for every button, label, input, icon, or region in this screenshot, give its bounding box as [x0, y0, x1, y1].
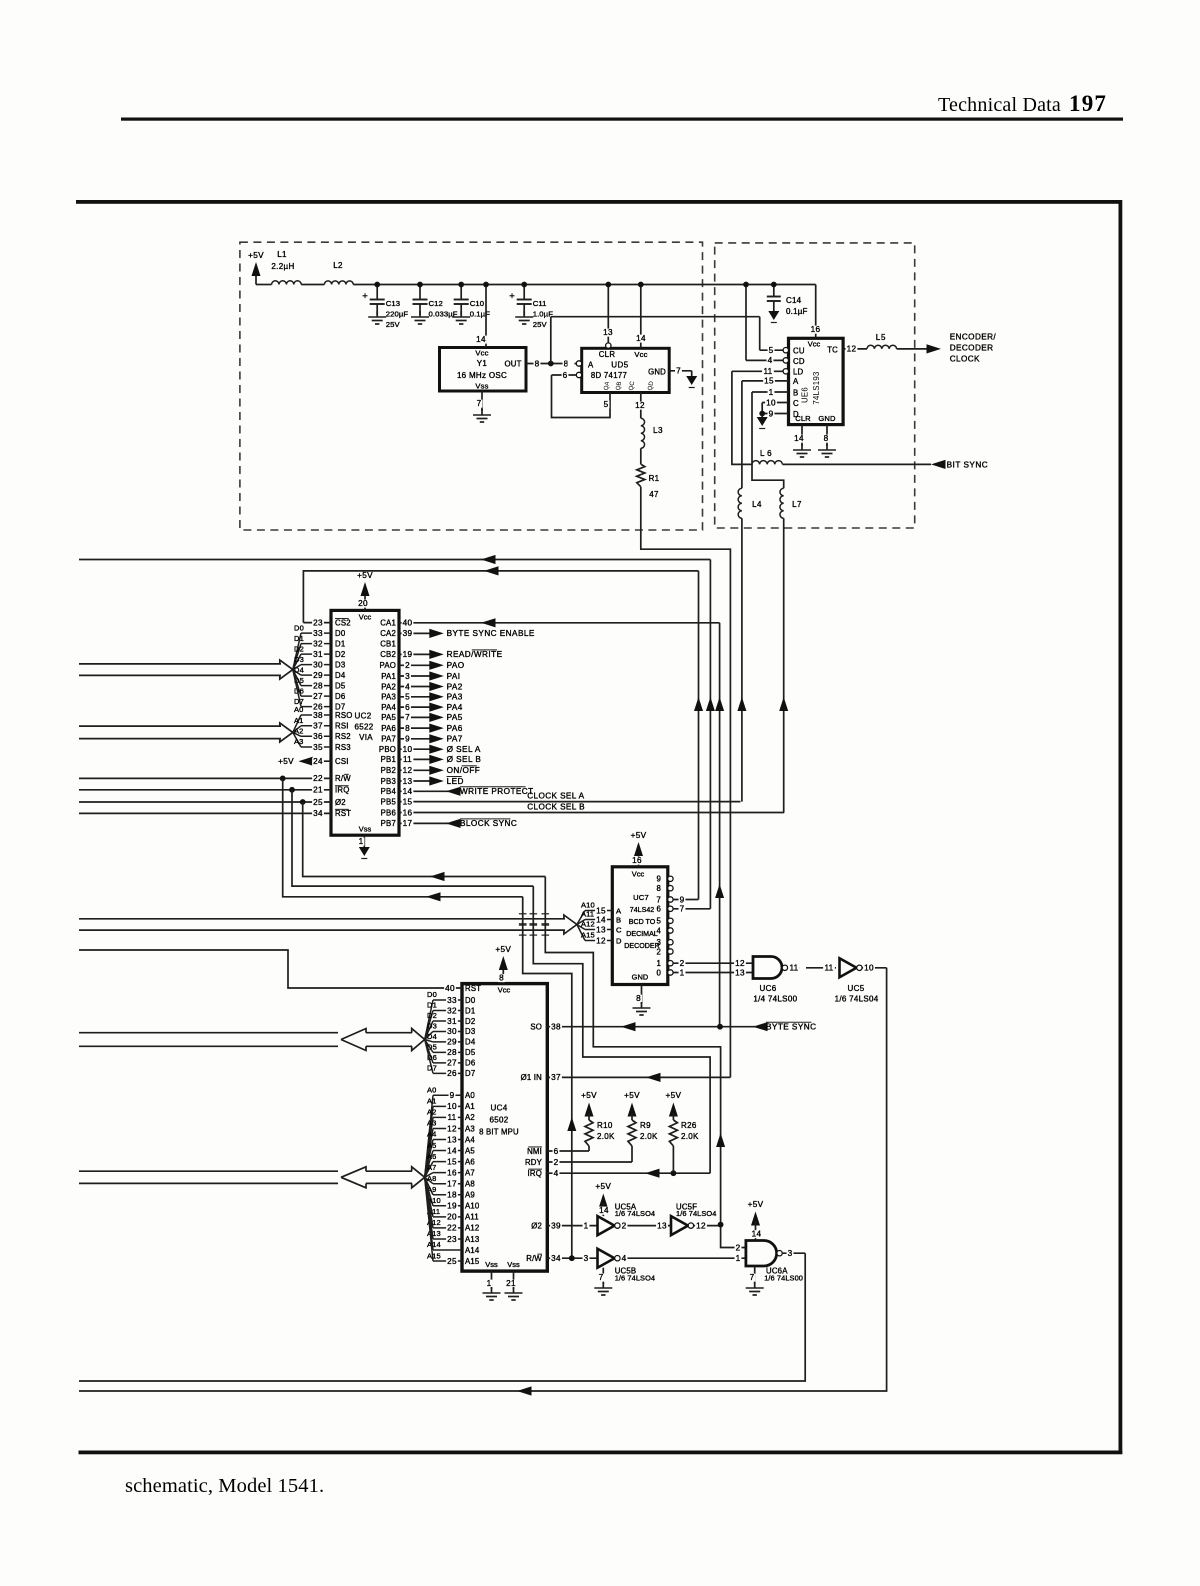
IC UC2 6522 VIA: [331, 610, 399, 835]
svg-text:DECODER: DECODER: [624, 942, 659, 950]
UE6 pin 14 CLR to ground: [801, 425, 803, 446]
dashed box oscillator section: [240, 242, 703, 530]
svg-text:Vcc: Vcc: [359, 613, 372, 622]
svg-text:L5: L5: [876, 333, 887, 342]
frame bottom edge: [79, 1451, 1123, 1455]
svg-text:1: 1: [487, 1279, 492, 1288]
svg-text:22: 22: [313, 774, 323, 783]
svg-text:0.1µF: 0.1µF: [470, 310, 491, 319]
svg-text:PA3: PA3: [381, 693, 396, 702]
svg-text:13: 13: [403, 777, 413, 786]
svg-text:Vss: Vss: [475, 382, 488, 391]
svg-text:+5V: +5V: [624, 1091, 640, 1100]
UC4 Vss pin 21 ground: [513, 1271, 515, 1289]
svg-text:PB1: PB1: [381, 755, 396, 764]
label BYTE SYNC with arrow: [753, 1022, 768, 1031]
wire fan A1: [293, 726, 301, 733]
svg-text:13: 13: [657, 1221, 667, 1230]
svg-text:L2: L2: [333, 261, 343, 270]
svg-text:D4: D4: [465, 1038, 476, 1047]
svg-text:16: 16: [403, 808, 413, 817]
wire fan A6: [425, 1162, 433, 1178]
bus data D0-D7 to UC2: [79, 663, 281, 665]
svg-text:DECODER: DECODER: [950, 344, 994, 353]
svg-text:D3: D3: [427, 1022, 437, 1031]
svg-text:7: 7: [405, 713, 410, 722]
svg-text:D3: D3: [465, 1027, 475, 1036]
svg-text:D7: D7: [465, 1069, 475, 1078]
wire UE6 A input through L4: [741, 381, 743, 488]
svg-text:A7: A7: [465, 1168, 475, 1177]
UE6 pin 8 GND to ground: [826, 425, 828, 446]
svg-text:C14: C14: [786, 296, 802, 305]
svg-text:5: 5: [769, 346, 774, 355]
wire fan A8: [425, 1177, 433, 1183]
svg-text:CD: CD: [793, 357, 805, 366]
svg-text:47: 47: [649, 490, 659, 499]
svg-text:8: 8: [405, 724, 410, 733]
svg-text:14: 14: [403, 787, 413, 796]
svg-text:1: 1: [359, 837, 364, 846]
svg-text:PB2: PB2: [381, 766, 396, 775]
bus address A0-A3 to UC2: [79, 725, 281, 727]
svg-text:A12: A12: [465, 1224, 479, 1233]
svg-text:A2: A2: [427, 1108, 436, 1117]
svg-text:B: B: [793, 388, 798, 397]
svg-text:PA7: PA7: [381, 735, 396, 744]
svg-text:R26: R26: [681, 1121, 697, 1130]
svg-text:PAO: PAO: [380, 661, 397, 670]
svg-text:CLR: CLR: [795, 414, 811, 423]
svg-text:PA4: PA4: [447, 703, 463, 712]
svg-text:D1: D1: [465, 1006, 475, 1015]
svg-text:C10: C10: [470, 299, 484, 308]
wire decoder out7 riser: [698, 571, 700, 900]
svg-text:4: 4: [554, 1169, 559, 1178]
svg-text:25: 25: [313, 798, 323, 807]
svg-text:12: 12: [696, 1221, 706, 1230]
svg-text:D2: D2: [294, 644, 304, 653]
svg-text:A3: A3: [465, 1124, 475, 1133]
svg-text:12: 12: [635, 401, 645, 410]
svg-text:+5V: +5V: [248, 251, 264, 260]
svg-text:4: 4: [656, 926, 661, 935]
wire fan D0: [293, 633, 301, 670]
inductor L5: [867, 345, 897, 349]
svg-text:+: +: [362, 291, 368, 302]
svg-text:CLR: CLR: [599, 350, 616, 359]
capacitor C12: [419, 285, 421, 300]
svg-text:RST: RST: [335, 809, 351, 818]
svg-text:13: 13: [596, 925, 606, 934]
svg-text:220µF: 220µF: [386, 310, 409, 319]
svg-text:21: 21: [313, 786, 323, 795]
svg-text:TC: TC: [827, 345, 838, 354]
wire fan D2: [293, 654, 301, 670]
svg-text:BCD TO: BCD TO: [629, 918, 656, 926]
svg-text:D4: D4: [294, 665, 304, 674]
bus address A0-A15 to UC4: [79, 1170, 338, 1172]
wire hop marks at bus crossing: [519, 913, 527, 915]
svg-text:R9: R9: [640, 1121, 651, 1130]
svg-text:D5: D5: [335, 681, 346, 690]
UC5B pin 7 ground: [602, 1268, 604, 1284]
svg-text:40: 40: [403, 619, 413, 628]
svg-text:DECIMAL: DECIMAL: [626, 930, 658, 938]
svg-text:A: A: [588, 361, 594, 370]
svg-text:16 MHz OSC: 16 MHz OSC: [457, 371, 507, 380]
svg-text:30: 30: [447, 1027, 457, 1036]
svg-text:15: 15: [447, 1157, 457, 1166]
svg-text:A15: A15: [427, 1251, 441, 1260]
svg-text:30: 30: [313, 660, 323, 669]
svg-text:1: 1: [680, 968, 685, 977]
wire fan A1: [425, 1106, 433, 1177]
UE6 pin 11 LD input from BIT SYNC: [732, 370, 783, 372]
svg-text:4: 4: [768, 356, 773, 365]
svg-text:PA6: PA6: [447, 724, 463, 733]
svg-text:2.0K: 2.0K: [640, 1132, 658, 1141]
svg-text:A2: A2: [465, 1113, 475, 1122]
svg-text:A0: A0: [427, 1086, 436, 1095]
svg-text:14: 14: [794, 434, 804, 443]
svg-text:D3: D3: [335, 660, 345, 669]
wire R1 to phase1 clock route: [641, 487, 731, 1078]
wire UC5B out to UC6A input 1: [620, 1257, 746, 1259]
svg-text:PA5: PA5: [381, 713, 396, 722]
svg-text:23: 23: [313, 618, 323, 627]
svg-text:PA7: PA7: [447, 735, 463, 744]
svg-text:3: 3: [405, 672, 410, 681]
svg-text:D4: D4: [335, 671, 346, 680]
svg-text:C11: C11: [533, 299, 547, 308]
svg-text:ENCODER/: ENCODER/: [950, 333, 997, 342]
svg-text:8: 8: [656, 884, 661, 893]
svg-text:+5V: +5V: [631, 831, 647, 840]
wire CS2 select from decoder out7: [303, 571, 698, 623]
svg-text:2: 2: [736, 1243, 741, 1252]
svg-text:A9: A9: [465, 1191, 475, 1200]
svg-text:D2: D2: [427, 1011, 437, 1020]
gate UC5B inverter: [598, 1249, 615, 1268]
wire R/W net route: [283, 778, 523, 896]
svg-text:2.0K: 2.0K: [597, 1132, 615, 1141]
svg-text:Technical Data: Technical Data: [938, 94, 1061, 116]
wire decoder out6 riser: [709, 560, 711, 909]
UC2 Vss pin 1 ground: [363, 835, 365, 847]
wire Y1 OUT pin 8: [526, 363, 577, 365]
svg-text:6: 6: [554, 1147, 559, 1156]
svg-text:R/W: R/W: [335, 774, 351, 783]
svg-text:Ø SEL A: Ø SEL A: [447, 745, 481, 754]
svg-text:1/6 74LS00: 1/6 74LS00: [764, 1273, 803, 1282]
capacitor C14: [773, 285, 775, 297]
ground UE6 pins 9 10: [757, 417, 768, 426]
svg-text:PB7: PB7: [381, 819, 396, 828]
svg-text:+5V: +5V: [357, 571, 373, 580]
svg-text:D5: D5: [465, 1048, 476, 1057]
svg-text:A6: A6: [465, 1157, 475, 1166]
svg-text:+5V: +5V: [595, 1182, 611, 1191]
svg-text:11: 11: [824, 964, 833, 973]
svg-text:12: 12: [403, 766, 413, 775]
svg-text:PB5: PB5: [381, 797, 397, 806]
wire fan A0: [293, 715, 301, 732]
wire fan D5: [425, 1040, 433, 1053]
svg-text:PA1: PA1: [381, 672, 396, 681]
svg-text:7: 7: [676, 367, 681, 376]
svg-text:17: 17: [403, 819, 413, 828]
svg-text:A0: A0: [465, 1091, 475, 1100]
svg-text:4: 4: [405, 682, 410, 691]
svg-text:Ø2: Ø2: [335, 798, 346, 807]
svg-text:1/6 74LSO4: 1/6 74LSO4: [615, 1273, 655, 1282]
wire CS2 pin stub: [303, 622, 331, 624]
svg-text:2: 2: [405, 661, 410, 670]
svg-text:35: 35: [313, 743, 323, 752]
svg-text:PA2: PA2: [447, 682, 463, 691]
IC UC4 6502 MPU: [462, 984, 547, 1272]
svg-text:NMI: NMI: [527, 1147, 542, 1156]
wire Y1 Vcc pin 14 to rail: [485, 285, 487, 348]
svg-text:7: 7: [599, 1273, 604, 1282]
svg-text:A8: A8: [427, 1174, 436, 1183]
svg-text:19: 19: [403, 650, 413, 659]
svg-text:+5V: +5V: [495, 945, 511, 954]
svg-text:16: 16: [447, 1168, 457, 1177]
svg-text:14: 14: [596, 915, 606, 924]
svg-text:8: 8: [499, 974, 504, 983]
svg-text:2.0K: 2.0K: [681, 1132, 699, 1141]
wire UC6A output pin 3 to bottom line: [782, 1252, 805, 1254]
svg-text:74LS193: 74LS193: [812, 371, 821, 404]
svg-text:33: 33: [313, 629, 323, 638]
wire UC5A out to UC5F: [620, 1225, 671, 1227]
svg-text:10: 10: [403, 745, 413, 754]
svg-text:PA3: PA3: [447, 693, 463, 702]
svg-text:34: 34: [551, 1254, 561, 1263]
svg-text:D0: D0: [335, 629, 346, 638]
UE6 pin 9 D input grounded: [762, 413, 788, 415]
svg-text:PAO: PAO: [447, 661, 465, 670]
capacitor C11: [523, 285, 525, 300]
UD5 input pin 6 feedback from QA pin 5: [576, 372, 581, 377]
wire RST to UC4 pin 40: [79, 950, 462, 988]
svg-text:2: 2: [680, 959, 685, 968]
svg-text:A7: A7: [427, 1163, 436, 1172]
wire select line from decoder out6: [79, 559, 710, 561]
wire IRQ to UC2 pin 21: [79, 789, 331, 791]
svg-text:6: 6: [656, 905, 661, 914]
gate UC5A inverter: [598, 1216, 615, 1235]
svg-text:5: 5: [405, 693, 410, 702]
svg-text:BLOCK SYNC: BLOCK SYNC: [460, 819, 517, 828]
svg-text:D1: D1: [427, 1001, 437, 1010]
svg-text:10: 10: [864, 964, 874, 973]
svg-text:26: 26: [447, 1069, 457, 1078]
wire UC5 output down to bottom line: [79, 968, 887, 1391]
frame top edge: [76, 200, 1122, 204]
wire fan A11: [577, 920, 585, 925]
svg-text:18: 18: [447, 1191, 457, 1200]
svg-text:1/4 74LS00: 1/4 74LS00: [753, 995, 797, 1004]
svg-text:GND: GND: [648, 368, 666, 377]
wire rail L1-L2: [301, 284, 324, 286]
svg-text:7: 7: [750, 1273, 755, 1282]
svg-text:22: 22: [447, 1224, 457, 1233]
svg-text:17: 17: [447, 1180, 457, 1189]
svg-text:L1: L1: [277, 250, 287, 259]
svg-text:PB6: PB6: [381, 808, 396, 817]
svg-text:UD5: UD5: [611, 361, 629, 370]
svg-text:CB1: CB1: [380, 640, 396, 649]
capacitor C10: [460, 285, 462, 300]
wire fan D4: [425, 1040, 433, 1042]
svg-text:A15: A15: [581, 931, 595, 940]
wire fan A12: [577, 925, 585, 930]
svg-text:RS2: RS2: [335, 732, 351, 741]
node 16MHz clock riser: [550, 317, 552, 364]
svg-text:6502: 6502: [490, 1116, 509, 1125]
svg-text:Vcc: Vcc: [475, 349, 488, 358]
svg-text:A5: A5: [465, 1146, 475, 1155]
UE6 TC pin 12 output to L5: [843, 348, 867, 350]
svg-text:1/6 74LS04: 1/6 74LS04: [835, 995, 879, 1004]
svg-text:+: +: [509, 291, 515, 302]
svg-text:7: 7: [680, 905, 685, 914]
svg-text:UE6: UE6: [801, 387, 810, 403]
svg-text:12: 12: [447, 1124, 457, 1133]
svg-text:RSI: RSI: [335, 722, 349, 731]
UD5 Vcc pin 14 to rail: [640, 285, 642, 349]
svg-text:8: 8: [636, 994, 641, 1003]
svg-text:Vcc: Vcc: [808, 340, 821, 349]
ground Y1 pin 7: [481, 409, 483, 415]
svg-text:C12: C12: [429, 299, 443, 308]
wire fan D5: [293, 670, 301, 686]
svg-text:13: 13: [447, 1135, 457, 1144]
svg-text:CS2: CS2: [335, 618, 351, 627]
svg-text:A: A: [793, 377, 799, 386]
wire fan D6: [425, 1040, 433, 1063]
UE6 pin 15 A input: [742, 380, 789, 382]
wire fan D4: [293, 670, 301, 676]
gate UC6A NAND: [735, 1244, 742, 1252]
svg-text:11: 11: [789, 964, 798, 973]
svg-text:34: 34: [313, 809, 323, 818]
power rail +5V: [353, 284, 816, 286]
wire fan A15: [577, 925, 585, 941]
UC7 GND pin 8 ground: [641, 985, 643, 1005]
svg-text:schematic, Model 1541.: schematic, Model 1541.: [125, 1475, 324, 1497]
wire IRQ net route: [292, 790, 533, 886]
svg-text:16: 16: [632, 856, 642, 865]
svg-text:CU: CU: [793, 347, 805, 356]
svg-text:4: 4: [622, 1254, 627, 1263]
svg-text:29: 29: [313, 671, 323, 680]
UD5 output QD pin 12 to L3: [640, 393, 642, 419]
svg-text:CA1: CA1: [380, 619, 396, 628]
UE6 pin 4 CD input tied high: [745, 285, 747, 361]
svg-text:D0: D0: [465, 996, 476, 1005]
svg-text:R10: R10: [597, 1121, 613, 1130]
capacitor C13: [376, 285, 378, 300]
bus address A10-A15 to UC7: [79, 918, 565, 920]
svg-text:8: 8: [535, 359, 540, 368]
svg-text:IRQ: IRQ: [335, 786, 349, 795]
svg-text:PA5: PA5: [447, 713, 463, 722]
wire fan A10: [425, 1177, 433, 1206]
svg-text:A13: A13: [465, 1235, 479, 1244]
svg-text:UC6: UC6: [760, 984, 777, 993]
wire L6 to BIT SYNC: [782, 463, 931, 465]
dashed box encoder section: [715, 243, 915, 528]
svg-text:3: 3: [584, 1254, 589, 1263]
UD5 GND pin 7: [669, 370, 692, 372]
svg-text:20: 20: [447, 1213, 457, 1222]
svg-text:VIA: VIA: [359, 733, 373, 742]
wire fan A13: [425, 1177, 433, 1239]
wire L7 down to clock sel B: [783, 518, 785, 812]
svg-text:D: D: [616, 937, 622, 946]
wire fan D3: [425, 1031, 433, 1039]
svg-text:A1: A1: [427, 1097, 436, 1106]
svg-text:Vcc: Vcc: [634, 350, 647, 359]
wire L3 to R1: [640, 448, 642, 464]
svg-text:PBO: PBO: [379, 745, 396, 754]
svg-text:13: 13: [603, 328, 613, 337]
svg-text:D4: D4: [427, 1032, 437, 1041]
svg-text:A4: A4: [465, 1135, 475, 1144]
svg-text:3: 3: [656, 938, 661, 947]
svg-text:D3: D3: [294, 655, 304, 664]
svg-text:9: 9: [450, 1091, 455, 1100]
svg-text:A5: A5: [427, 1141, 436, 1150]
svg-text:L7: L7: [792, 500, 802, 509]
UC7 output 6 pin 7 wire: [673, 908, 710, 910]
ground UD5 pin 7: [686, 376, 697, 385]
svg-text:7: 7: [477, 399, 482, 408]
wire fan A2: [293, 732, 301, 736]
inductor L2: [324, 281, 353, 285]
svg-text:RST: RST: [465, 984, 481, 993]
svg-text:C: C: [793, 399, 799, 408]
svg-text:UC7: UC7: [633, 893, 649, 902]
wire L4 down to clock sel A: [741, 518, 743, 801]
svg-text:A14: A14: [465, 1246, 480, 1255]
wire CA1 byte sync riser: [719, 623, 721, 1027]
frame right edge: [1119, 200, 1123, 1454]
svg-text:27: 27: [447, 1059, 457, 1068]
svg-text:3: 3: [788, 1249, 793, 1258]
svg-text:A3: A3: [427, 1119, 436, 1128]
svg-text:A6: A6: [427, 1152, 436, 1161]
svg-text:ON/OFF: ON/OFF: [447, 766, 481, 775]
svg-text:9: 9: [405, 735, 410, 744]
wire fan A4: [425, 1140, 433, 1178]
svg-text:PA4: PA4: [381, 703, 396, 712]
UC7 output 1 pin 2 wire to gate: [673, 962, 753, 964]
svg-text:6522: 6522: [355, 723, 374, 732]
header rule: [121, 118, 1123, 121]
wire fan D1: [425, 1010, 433, 1039]
svg-text:14: 14: [476, 335, 486, 344]
UE6 pin 10 C input: [762, 402, 788, 404]
svg-text:CLOCK SEL A: CLOCK SEL A: [527, 792, 584, 801]
wire fan A3: [293, 732, 301, 747]
svg-text:Vcc: Vcc: [498, 986, 511, 995]
svg-text:D1: D1: [335, 639, 345, 648]
